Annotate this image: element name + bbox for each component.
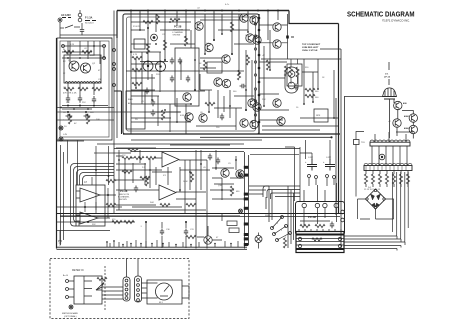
terminal lugs filled bbox=[244, 166, 249, 246]
wire loop 2 bbox=[74, 167, 115, 227]
wire loop 3 bbox=[77, 170, 115, 186]
svg-text:6V: 6V bbox=[74, 123, 77, 125]
transistor Q23 regulator bbox=[409, 125, 417, 133]
svg-text:22: 22 bbox=[63, 73, 66, 75]
svg-text:SW-2: SW-2 bbox=[265, 215, 271, 217]
node top border junctions bbox=[130, 10, 279, 12]
transistor Q8 bbox=[183, 93, 191, 101]
svg-text:10: 10 bbox=[296, 107, 299, 109]
box bias block bbox=[126, 91, 145, 129]
svg-text:.05: .05 bbox=[141, 101, 145, 103]
transistor Q21 regulator bbox=[394, 101, 402, 109]
wire pc38 inner bbox=[300, 208, 337, 226]
svg-text:560: 560 bbox=[315, 97, 319, 99]
resistor R6 bbox=[68, 114, 71, 124]
resistor R24 bbox=[296, 67, 299, 77]
transistor Q16 bbox=[253, 36, 261, 44]
pad bridge corners bbox=[366, 189, 385, 208]
wire from jack down bbox=[59, 22, 61, 38]
svg-text:TS1: TS1 bbox=[361, 142, 366, 144]
resistor R53 bbox=[315, 224, 325, 227]
resistor R12 bbox=[132, 56, 142, 59]
box PC-28 outline bbox=[123, 14, 259, 134]
svg-text:.1: .1 bbox=[140, 226, 143, 228]
label smudges pc28 bbox=[133, 25, 250, 129]
transistor Q19 bbox=[236, 170, 244, 178]
resistor R46 hanging bbox=[385, 174, 388, 184]
capacitor C27 bbox=[151, 110, 155, 117]
svg-text:SHOWN: SHOWN bbox=[119, 199, 127, 201]
resistor R18 bbox=[237, 70, 240, 80]
svg-text:Q2: Q2 bbox=[92, 63, 96, 65]
resistor R48 hanging bbox=[399, 174, 402, 184]
svg-text:2N: 2N bbox=[135, 119, 138, 121]
wire main vertical x117 low bbox=[116, 38, 118, 138]
transistor Q5 bbox=[222, 55, 230, 63]
pad pc28 edge rings bbox=[254, 23, 256, 116]
wire loop 1 bbox=[71, 164, 115, 227]
wire bus y120 bbox=[57, 119, 114, 121]
svg-text:C9: C9 bbox=[228, 163, 231, 165]
box input board inner line bbox=[60, 41, 109, 137]
svg-text:TOP COVER MKT: TOP COVER MKT bbox=[302, 44, 321, 46]
box PC-38 board bbox=[296, 202, 345, 236]
wire q20 leads bbox=[197, 226, 222, 240]
transistor Q14 output can bbox=[273, 40, 281, 48]
wire dashed internal bbox=[104, 266, 106, 310]
wire mid bus y137 bbox=[200, 136, 332, 138]
capacitor C5 bbox=[66, 114, 73, 118]
label smudges out bbox=[262, 55, 325, 109]
wire inter verticals bbox=[68, 140, 109, 213]
capacitor C23 bbox=[294, 84, 298, 91]
wire ac bus bbox=[60, 34, 117, 36]
box input board outline bbox=[57, 38, 112, 140]
lamp DS1 envelope bbox=[383, 88, 397, 97]
wire loop 5 bbox=[83, 176, 115, 186]
box PC-28 inner line bbox=[127, 17, 256, 131]
wire lead hooks bbox=[397, 236, 405, 251]
capacitor C15 bbox=[330, 222, 334, 229]
svg-text:NPN: NPN bbox=[316, 115, 321, 117]
svg-text:LP-12: LP-12 bbox=[384, 77, 391, 79]
wire top step right bbox=[289, 11, 339, 24]
jack J5 column bbox=[239, 173, 243, 177]
op-amp U4 bbox=[159, 185, 176, 200]
wire output column verticals bbox=[264, 30, 334, 118]
svg-text:.05: .05 bbox=[203, 167, 207, 169]
pad meter pins bbox=[66, 280, 69, 283]
wire bottom of box bbox=[62, 106, 108, 110]
transistor Q1 bbox=[69, 61, 79, 71]
resistor R15 bbox=[146, 44, 149, 54]
wire loops to switch bbox=[263, 186, 300, 199]
wire opamp wires bbox=[116, 156, 207, 192]
wire column top h bbox=[250, 154, 299, 156]
resistor R50 bbox=[283, 238, 286, 248]
svg-text:+C: +C bbox=[388, 121, 391, 123]
wire transformer right leads bbox=[344, 236, 405, 249]
wire long h y71 bbox=[126, 70, 244, 72]
transistor Q18 bbox=[221, 169, 229, 177]
wire inner h a bbox=[131, 52, 191, 122]
wire lamp leads bbox=[389, 99, 394, 138]
svg-text:SHOWN: SHOWN bbox=[173, 35, 181, 37]
resistor R28 top bbox=[156, 14, 159, 24]
wire outer left edge bbox=[56, 38, 58, 249]
wire heater scallops bbox=[65, 81, 101, 83]
wire bottom border inner bbox=[57, 248, 248, 250]
box transistor sub-board bbox=[64, 55, 101, 83]
connector CN3 bbox=[135, 276, 142, 302]
label smudges bottom bbox=[92, 224, 219, 239]
wire pc28 right edge dark bbox=[258, 14, 260, 134]
wire row y230.5 bbox=[57, 230, 110, 232]
transistor Q22 regulator bbox=[409, 114, 417, 122]
box vas block bbox=[207, 62, 222, 73]
resistor R7 bbox=[86, 114, 89, 124]
connector CN1 bbox=[151, 34, 158, 41]
resistor R49 hanging bbox=[406, 174, 409, 184]
resistor R11 bbox=[106, 203, 116, 206]
svg-text:C-15: C-15 bbox=[326, 157, 331, 159]
resistor R33 bbox=[122, 170, 132, 173]
op-amp U2 bbox=[80, 212, 98, 224]
svg-text:C-14: C-14 bbox=[308, 157, 313, 159]
node can link blob bbox=[286, 36, 289, 39]
label smudges lowmid bbox=[122, 155, 240, 204]
resistor R62 bbox=[184, 36, 187, 46]
resistor R39 bbox=[124, 220, 134, 223]
wire cap feeders bbox=[285, 140, 330, 201]
wire bottom loops right of switch bbox=[249, 186, 269, 194]
wire bottom border bbox=[57, 246, 248, 248]
svg-text:4000: 4000 bbox=[404, 115, 410, 118]
svg-text:1.2K: 1.2K bbox=[70, 44, 75, 46]
node opamp dots bbox=[84, 206, 86, 208]
wire right risers to bridge bbox=[393, 172, 409, 242]
node junction dots lowmid bbox=[95, 157, 237, 191]
svg-text:PC-28: PC-28 bbox=[120, 189, 128, 193]
wire to terminals bbox=[212, 168, 244, 199]
wire can link v bbox=[287, 14, 289, 59]
capacitor C2 bbox=[66, 95, 70, 103]
pad main-edge pads bbox=[113, 49, 116, 52]
wire mid bus y140 bbox=[131, 139, 262, 141]
pad bias pads bbox=[308, 175, 311, 178]
svg-text:PC-38: PC-38 bbox=[308, 215, 316, 219]
svg-text:METER IN: METER IN bbox=[72, 269, 84, 272]
svg-text:25V: 25V bbox=[82, 102, 86, 104]
transistor Q11 bbox=[143, 61, 153, 71]
resistor R30 bbox=[122, 156, 132, 159]
svg-text:100K: 100K bbox=[183, 181, 188, 183]
svg-text:560: 560 bbox=[233, 91, 237, 93]
resistor R3 bbox=[64, 87, 74, 90]
resistor R68 bbox=[284, 66, 287, 76]
svg-text:6.8K: 6.8K bbox=[180, 115, 185, 117]
wire long h y91 bbox=[126, 90, 205, 92]
transistor Q6 bbox=[214, 78, 222, 86]
wire reg wires bbox=[397, 109, 413, 139]
svg-text:R44: R44 bbox=[150, 202, 155, 204]
wire lowmid mesh v bbox=[125, 150, 236, 200]
svg-text:2: 2 bbox=[281, 230, 282, 232]
wire strips risers inside box bbox=[127, 259, 139, 278]
capacitor C4 bbox=[92, 96, 96, 104]
transistor Q20 bbox=[204, 236, 212, 244]
svg-text:SCHEMATIC DIAGRAM: SCHEMATIC DIAGRAM bbox=[347, 12, 415, 19]
connector CN2 bbox=[123, 277, 130, 301]
svg-text:SLO-BLO: SLO-BLO bbox=[85, 23, 94, 25]
wire hang stubs bbox=[366, 171, 408, 188]
resistor R34 bbox=[140, 176, 150, 179]
pad pc38 right edge bbox=[341, 210, 345, 214]
wire meter harness bbox=[96, 287, 123, 299]
pad input pads bbox=[62, 45, 65, 48]
svg-text:C30: C30 bbox=[166, 229, 171, 231]
svg-text:+: + bbox=[323, 161, 325, 164]
wire bus right of main bbox=[196, 214, 207, 249]
wire bus y112 bbox=[57, 111, 131, 113]
wire output stage h2 bbox=[259, 42, 288, 44]
meter M1 bbox=[147, 280, 189, 304]
wire box verticals bbox=[68, 41, 94, 95]
capacitor C17 electrolytic bbox=[325, 159, 335, 171]
resistor R61 bbox=[170, 18, 180, 21]
svg-text:4000: 4000 bbox=[404, 127, 410, 130]
pilot lamp PL1 bbox=[255, 233, 262, 249]
node q11 dots bbox=[147, 61, 149, 63]
wire long mid bundle bbox=[114, 148, 300, 150]
wire lamp stem bbox=[388, 62, 390, 85]
diode bridge D1-D4 bbox=[366, 189, 386, 209]
wire inner v b bbox=[142, 50, 246, 134]
svg-text:ADJ: ADJ bbox=[128, 102, 132, 105]
ground chassis bbox=[58, 231, 62, 245]
wire board to bus h bbox=[261, 49, 341, 59]
switch SW1 power bbox=[60, 25, 80, 28]
wire lamp base bbox=[383, 97, 397, 100]
capacitor C12 bbox=[216, 158, 220, 165]
wire pc38 feeds bbox=[288, 186, 294, 248]
resistor R19 bbox=[246, 55, 249, 65]
svg-text:47: 47 bbox=[216, 237, 219, 239]
resistor R4 bbox=[78, 87, 88, 90]
transistor Q30 capsule bbox=[285, 67, 298, 93]
svg-text:IC1: IC1 bbox=[163, 175, 167, 177]
node bottom dots bbox=[87, 221, 89, 223]
fuse F1 bbox=[78, 10, 82, 22]
node junction dots extra bbox=[135, 21, 335, 123]
svg-text:330: 330 bbox=[305, 67, 309, 69]
resistor R38 bbox=[112, 220, 122, 223]
transistor Q7 bbox=[222, 79, 230, 87]
resistor R31 bbox=[134, 156, 144, 159]
wire meter amp pins bbox=[68, 281, 74, 297]
svg-text:4-7c: 4-7c bbox=[225, 4, 230, 6]
svg-text:F-1 3A: F-1 3A bbox=[85, 17, 93, 20]
capacitor C16 electrolytic bbox=[307, 159, 317, 171]
wire strip2 feeds bbox=[356, 132, 364, 197]
node pc28 edge blobs bbox=[258, 17, 261, 124]
wire lowmid mesh h bbox=[116, 145, 234, 210]
wire verticals from top border bbox=[131, 10, 278, 134]
terminal strip TS2 bbox=[364, 163, 412, 170]
resistor R2 bbox=[82, 50, 92, 53]
svg-text:.02: .02 bbox=[84, 48, 88, 50]
resistor R13 bbox=[132, 68, 142, 71]
box driver block right bbox=[314, 109, 328, 122]
svg-text:A7: A7 bbox=[84, 181, 88, 184]
svg-text:680: 680 bbox=[236, 191, 240, 193]
svg-text:.02: .02 bbox=[197, 8, 201, 10]
pad row PC38 bbox=[302, 203, 338, 207]
wire leftbox verticals upper bbox=[70, 41, 104, 64]
resistor R66 bbox=[161, 110, 164, 120]
box driver sub-board bbox=[175, 48, 199, 106]
svg-text:BIAS: BIAS bbox=[128, 98, 133, 101]
box meter amp bbox=[74, 276, 102, 304]
transistor Q10 bbox=[199, 114, 207, 122]
capacitor C14a bbox=[184, 229, 188, 236]
capacitor C11 bbox=[186, 76, 190, 83]
resistor R27 bbox=[305, 94, 315, 97]
resistor R23 bbox=[289, 67, 292, 77]
transistor Q14 bbox=[250, 16, 258, 24]
resistor R70 bbox=[128, 148, 138, 151]
capacitor C26 bbox=[151, 100, 155, 107]
resistor R60 bbox=[143, 20, 153, 23]
wire mid bundle y144 bbox=[97, 143, 244, 145]
svg-text:.47: .47 bbox=[262, 55, 266, 57]
jack J3 input right bbox=[59, 137, 63, 141]
node dot b bbox=[85, 111, 87, 113]
resistor R10 bbox=[106, 179, 116, 182]
jack J6 column bbox=[239, 209, 243, 213]
resistor R44 hanging bbox=[371, 174, 374, 184]
svg-text:A+ B: A+ B bbox=[63, 274, 68, 277]
resistor R45 hanging bbox=[378, 174, 381, 184]
capacitor C22 bbox=[240, 84, 247, 88]
transistor Q18a bbox=[253, 103, 261, 111]
wire q11 q12 top bbox=[140, 61, 168, 63]
jack J1 AC input bbox=[58, 18, 62, 22]
svg-text:R2: R2 bbox=[63, 61, 66, 63]
svg-text:47K 47K 2.2K: 47K 47K 2.2K bbox=[63, 93, 77, 95]
wire thick elbow bbox=[114, 91, 122, 134]
node dots main bbox=[130, 51, 132, 53]
resistor R67 bbox=[266, 60, 269, 70]
box meter block divider bbox=[84, 276, 92, 304]
svg-text:25V: 25V bbox=[66, 102, 70, 104]
terminal strip TS1 bbox=[370, 132, 410, 146]
wire strip to strip bbox=[372, 146, 407, 166]
wire output column horizontals bbox=[259, 62, 338, 120]
box fuse F2 bbox=[229, 228, 239, 233]
capacitor C24 bbox=[208, 154, 212, 161]
wire long bottom bus 2 bbox=[60, 216, 340, 218]
transistor Q15 bbox=[246, 34, 254, 42]
transistor Q13 output can bbox=[273, 23, 281, 31]
svg-text:1: 1 bbox=[277, 223, 278, 225]
wire bridge loop bottom bbox=[358, 199, 394, 219]
pad P1 below strip bbox=[379, 154, 385, 160]
wire mesh verticals pc28 bbox=[136, 30, 255, 132]
transformer T1 bbox=[296, 229, 344, 253]
svg-text:4.7K: 4.7K bbox=[133, 54, 138, 56]
transistor Q16 output can bbox=[277, 117, 285, 125]
resistor R64 bbox=[205, 102, 215, 105]
svg-text:©1971 DYNACO INC.: ©1971 DYNACO INC. bbox=[382, 18, 410, 22]
resistor R72 bbox=[190, 172, 193, 182]
wire cap leads bbox=[309, 156, 334, 186]
resistor R36 bbox=[186, 203, 196, 206]
transistor Q13 bbox=[240, 14, 248, 22]
transistor Q9 bbox=[185, 113, 193, 121]
capacitor C1 bbox=[81, 23, 83, 28]
wire cap leads bbox=[146, 213, 222, 248]
wire left border main bbox=[116, 11, 118, 39]
capacitor C3 bbox=[78, 95, 82, 103]
wire loop 4 bbox=[80, 173, 115, 186]
svg-text:100: 100 bbox=[216, 127, 220, 129]
wire opamp outputs bbox=[98, 195, 116, 218]
resistor R16 bbox=[163, 40, 166, 50]
wire mesh horizontals pc28 bbox=[131, 20, 254, 126]
label smudges leftbox bbox=[63, 44, 101, 136]
wire left lower verticals bbox=[61, 145, 64, 245]
wire thick mid bus y134 bbox=[123, 133, 340, 135]
jack J2 input left bbox=[59, 126, 63, 130]
svg-text:560: 560 bbox=[315, 91, 319, 93]
svg-text:400: 400 bbox=[403, 102, 407, 105]
svg-text:JOIN RED LEFT: JOIN RED LEFT bbox=[302, 47, 319, 49]
svg-text:47K: 47K bbox=[122, 155, 126, 157]
wire bus y215.8 bbox=[60, 215, 240, 217]
svg-text:1K: 1K bbox=[199, 63, 202, 65]
resistor R26 bbox=[305, 88, 315, 91]
wire out bottom h bbox=[262, 126, 338, 130]
capacitor C9 bbox=[178, 58, 182, 65]
wire bus y141 bbox=[57, 140, 84, 142]
capacitor C8 bbox=[170, 58, 174, 65]
svg-text:22K: 22K bbox=[262, 99, 266, 101]
resistor R1 bbox=[64, 50, 74, 53]
resistor R47 hanging bbox=[392, 174, 395, 184]
wire long bottom bus bbox=[57, 213, 345, 215]
transistor Q17 bbox=[248, 99, 256, 107]
wire right border bbox=[338, 24, 340, 214]
resistor R55 bbox=[97, 277, 107, 280]
capacitor C21 bbox=[220, 114, 224, 121]
wire switch bus bbox=[266, 186, 272, 222]
svg-text:R1 47K: R1 47K bbox=[133, 26, 140, 28]
wire output stage h1 bbox=[259, 24, 288, 26]
resistor R63 bbox=[230, 22, 233, 32]
svg-text:R9: R9 bbox=[198, 25, 201, 27]
switch SW2 rotary bbox=[271, 216, 292, 242]
resistor R37 bbox=[160, 203, 170, 206]
wire bridge leads bbox=[358, 199, 394, 219]
svg-text:PC-28: PC-28 bbox=[174, 25, 182, 29]
wire verticals lowmid bbox=[119, 150, 207, 213]
box bias pot bbox=[354, 140, 360, 145]
box relay K1 bbox=[227, 221, 237, 226]
wire bus y153 bbox=[94, 152, 131, 154]
svg-text:V-1: V-1 bbox=[385, 74, 389, 76]
box meter board dashed bbox=[50, 259, 189, 319]
